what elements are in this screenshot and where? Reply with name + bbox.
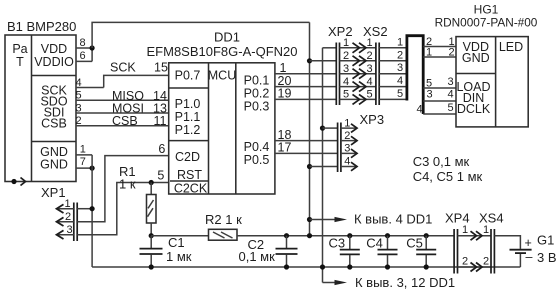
svg-text:Pa: Pa <box>12 42 27 56</box>
wire 5 to HG1 pin3 <box>423 78 456 90</box>
svg-text:3: 3 <box>344 143 350 155</box>
svg-text:CSB: CSB <box>41 117 67 131</box>
connector XS2 label <box>363 24 388 39</box>
wire GND riser B <box>322 48 324 283</box>
svg-text:RDN0007-PAN-#00: RDN0007-PAN-#00 <box>435 16 538 30</box>
svg-text:5: 5 <box>157 169 164 183</box>
junction riser A XP2 <box>307 58 312 63</box>
junction C4 VDD <box>385 233 390 238</box>
svg-text:XP1: XP1 <box>41 185 66 200</box>
connector XP3 body <box>338 117 357 172</box>
MCU DD1 body <box>169 63 275 196</box>
svg-text:EFM8SB10F8G-A-QFN20: EFM8SB10F8G-A-QFN20 <box>147 44 298 59</box>
DD1 pin 5 RST <box>157 169 164 183</box>
wire XP2 row1 from riser B <box>323 47 337 49</box>
svg-text:G1: G1 <box>537 233 554 248</box>
junction C5 VDD <box>424 233 429 238</box>
svg-text:5: 5 <box>397 88 403 100</box>
svg-text:2: 2 <box>448 47 454 59</box>
svg-text:15: 15 <box>154 60 168 74</box>
DD1 pin 17 wire to XP3 <box>275 141 338 155</box>
junction C2 VDD <box>284 233 289 238</box>
svg-text:B1 BMP280: B1 BMP280 <box>7 19 76 34</box>
wire MISO label <box>112 89 144 103</box>
note C3 value <box>413 154 470 169</box>
junction riser A rail <box>307 233 312 238</box>
B1 pin 1 GND <box>76 144 92 156</box>
junction XP1 GND <box>90 206 95 211</box>
wire harness bus <box>407 36 423 114</box>
wire RC node <box>151 235 208 237</box>
connector XP2 label <box>328 24 353 39</box>
wire 1 to HG1 pin2 <box>423 47 456 59</box>
wire SCK <box>104 60 170 87</box>
svg-text:GND: GND <box>462 51 490 65</box>
B1 pin 3 SDI <box>75 102 169 114</box>
svg-text:1: 1 <box>280 61 287 75</box>
svg-text:2: 2 <box>397 49 403 61</box>
wire VDD top rail <box>92 22 309 48</box>
connector XS2 body <box>366 37 379 105</box>
connector XP3 label <box>360 112 385 127</box>
svg-text:XP3: XP3 <box>360 112 385 127</box>
sensor B1 BMP280 label <box>7 19 76 34</box>
svg-text:1: 1 <box>64 198 70 210</box>
svg-text:P0.7: P0.7 <box>175 68 201 82</box>
svg-text:R2 1 к: R2 1 к <box>205 212 242 227</box>
wire CSB label <box>112 114 138 128</box>
junction C5 GND <box>424 264 429 269</box>
svg-text:6: 6 <box>158 142 165 156</box>
HG1 pin numbers <box>447 36 454 114</box>
wire XP1 pin1 to GND <box>77 208 92 210</box>
DD1 pin 15 number <box>154 60 168 74</box>
svg-text:3: 3 <box>447 76 453 88</box>
wire 3 to HG1 pin4 <box>423 89 456 101</box>
junction riser B GND rail <box>320 264 325 269</box>
svg-text:5: 5 <box>366 89 372 101</box>
junction C3 VDD <box>347 233 352 238</box>
connector XS4 label <box>479 211 504 226</box>
DD1 pin 1 wire to XP2 <box>275 61 336 75</box>
wire XP2 row2 from riser A <box>310 60 337 62</box>
svg-text:2: 2 <box>483 256 489 268</box>
svg-text:LED: LED <box>499 40 523 54</box>
svg-text:VDDIO: VDDIO <box>34 55 74 69</box>
svg-text:C2D: C2D <box>175 150 200 164</box>
svg-text:5: 5 <box>426 78 432 90</box>
capacitor C4 <box>366 236 397 268</box>
svg-text:1: 1 <box>462 224 468 236</box>
junction riser B XP3 <box>320 126 325 131</box>
svg-text:1: 1 <box>483 224 489 236</box>
svg-text:C3 0,1 мк: C3 0,1 мк <box>413 154 470 169</box>
battery G1 <box>494 233 556 268</box>
resistor R2 <box>205 212 242 240</box>
svg-text:SCK: SCK <box>110 60 136 74</box>
svg-text:P0.3: P0.3 <box>244 99 270 113</box>
capacitor C1 <box>140 235 192 267</box>
svg-text:C4: C4 <box>366 236 383 251</box>
svg-text:C4, C5 1 мк: C4, C5 1 мк <box>413 169 483 184</box>
junction B1 VDD <box>90 45 95 50</box>
DD1 pin 20 wire to XP2 <box>275 74 336 88</box>
B1 pin 6 VDDIO <box>76 48 92 62</box>
B1 pin 5 SDO <box>75 90 169 102</box>
DD1 part number <box>147 44 298 59</box>
junction riser A Vdd tap <box>307 217 312 222</box>
svg-text:4: 4 <box>75 77 81 89</box>
svg-text:2: 2 <box>75 115 81 127</box>
svg-text:P0.2: P0.2 <box>244 86 270 100</box>
junction C3 GND <box>347 264 352 269</box>
svg-text:3: 3 <box>397 62 403 74</box>
junction C4 GND <box>385 264 390 269</box>
svg-text:P1.0: P1.0 <box>175 97 201 111</box>
wire XP1 pin2 to C2D <box>77 156 169 222</box>
svg-text:0,1 мк: 0,1 мк <box>239 249 276 264</box>
resistor R1 <box>119 164 156 236</box>
capacitor C5 <box>406 236 436 268</box>
wire VDD rail bottom <box>237 235 454 237</box>
connector XP4 body <box>454 224 468 274</box>
svg-text:MCU: MCU <box>208 68 236 82</box>
svg-text:2: 2 <box>344 130 350 142</box>
svg-text:4: 4 <box>416 103 422 115</box>
wire GND riser left <box>91 155 93 267</box>
svg-text:7: 7 <box>80 156 86 168</box>
XP4 XS4 mating <box>458 231 492 271</box>
svg-text:3 В: 3 В <box>537 250 557 265</box>
svg-text:19: 19 <box>278 87 292 101</box>
DD1 pin 13 number <box>153 102 167 116</box>
svg-text:К выв. 4 DD1: К выв. 4 DD1 <box>354 212 432 227</box>
svg-text:P0.1: P0.1 <box>244 73 270 87</box>
svg-text:2: 2 <box>366 50 372 62</box>
B1 pin 7 GND <box>76 156 92 168</box>
svg-text:+: + <box>525 236 532 250</box>
sensor B1 body <box>5 35 76 182</box>
svg-text:P0.5: P0.5 <box>244 153 270 167</box>
svg-text:3: 3 <box>366 63 372 75</box>
junction RST R1 <box>149 180 154 185</box>
svg-text:5: 5 <box>75 90 81 102</box>
svg-text:К выв. 3, 12 DD1: К выв. 3, 12 DD1 <box>355 275 455 290</box>
capacitor C3 <box>329 236 360 268</box>
svg-text:4: 4 <box>447 89 453 101</box>
MCU DD1 label <box>214 30 240 45</box>
display HG1 label <box>474 3 499 17</box>
svg-text:1: 1 <box>426 47 432 59</box>
svg-text:P1.1: P1.1 <box>175 110 201 124</box>
svg-text:CSB: CSB <box>112 114 138 128</box>
wire 2 to HG1 pin1 <box>423 36 456 48</box>
svg-text:DCLK: DCLK <box>457 102 491 116</box>
svg-text:1 мк: 1 мк <box>166 249 192 264</box>
svg-text:–: – <box>526 250 533 264</box>
node to pin 4 DD1 <box>310 212 433 227</box>
wire VDD riser A <box>309 22 311 235</box>
B1 pin 4 SCK <box>75 77 103 89</box>
connector XP1 label <box>41 185 66 200</box>
XP2 XS2 mating rows <box>340 43 376 105</box>
svg-text:P0.4: P0.4 <box>244 140 270 154</box>
junction R1 C1 <box>149 233 154 238</box>
svg-text:2: 2 <box>65 211 71 223</box>
connector XP4 label <box>445 211 470 226</box>
svg-text:8: 8 <box>79 37 85 49</box>
svg-text:3: 3 <box>426 89 432 101</box>
svg-text:2: 2 <box>462 256 468 268</box>
display HG1 body <box>456 37 528 127</box>
svg-text:6: 6 <box>79 50 85 62</box>
svg-text:GND: GND <box>40 158 68 172</box>
B1 pressure input arrow <box>11 178 25 186</box>
svg-text:RST: RST <box>177 168 202 182</box>
svg-text:1: 1 <box>397 36 403 48</box>
wire GND bottom rail <box>92 266 520 268</box>
DD1 pin 11 number <box>154 114 167 128</box>
junction riser A XP3 <box>307 164 312 169</box>
svg-text:4: 4 <box>397 75 403 87</box>
svg-text:C5: C5 <box>406 236 423 251</box>
svg-text:C3: C3 <box>329 236 346 251</box>
svg-text:11: 11 <box>154 114 167 128</box>
svg-text:4: 4 <box>366 76 372 88</box>
junction C2 GND <box>284 264 289 269</box>
svg-text:1: 1 <box>366 37 372 49</box>
capacitor C2 <box>239 236 298 267</box>
svg-text:C1: C1 <box>168 235 185 250</box>
svg-text:5: 5 <box>447 102 453 114</box>
svg-text:HG1: HG1 <box>474 3 499 17</box>
svg-text:VDD: VDD <box>41 42 67 56</box>
B1 pin 8 VDD <box>76 37 92 49</box>
svg-text:C2CK: C2CK <box>174 181 208 195</box>
svg-text:3: 3 <box>66 224 72 236</box>
svg-text:DD1: DD1 <box>214 30 240 45</box>
svg-text:17: 17 <box>278 141 292 155</box>
svg-text:1 к: 1 к <box>119 177 136 192</box>
svg-text:1: 1 <box>80 144 86 156</box>
junction C1 GND <box>149 264 154 269</box>
DD1 pin 6 C2D <box>158 142 165 156</box>
svg-text:P1.2: P1.2 <box>175 123 201 137</box>
svg-text:T: T <box>16 55 24 69</box>
svg-text:4: 4 <box>344 156 350 168</box>
B1 pin 2 CSB <box>75 115 169 127</box>
DD1 pin 19 wire to XP2 <box>275 87 336 101</box>
junction B1 GND <box>90 166 95 171</box>
DD1 pin 14 number <box>153 89 167 103</box>
wires XS2 to bus <box>379 36 407 100</box>
connector XP1 body <box>57 198 78 241</box>
DD1 pin 18 wire to XP3 <box>275 128 338 142</box>
connector XS4 body <box>483 224 494 274</box>
wire XP3 row4 from riser A <box>310 166 338 168</box>
wire XP3 row1 from riser B <box>323 127 338 129</box>
HG1 part number <box>435 16 538 30</box>
svg-text:1: 1 <box>344 117 350 129</box>
wire XP1 pin3 to C2CK <box>77 183 169 235</box>
wire 4 to HG1 pin5 <box>416 103 456 115</box>
note C4 C5 value <box>413 169 483 184</box>
connector XP2 body <box>336 37 349 105</box>
wire MOSI label <box>112 102 144 116</box>
node to pins 3 12 DD1 <box>323 275 456 290</box>
svg-text:3: 3 <box>75 102 81 114</box>
